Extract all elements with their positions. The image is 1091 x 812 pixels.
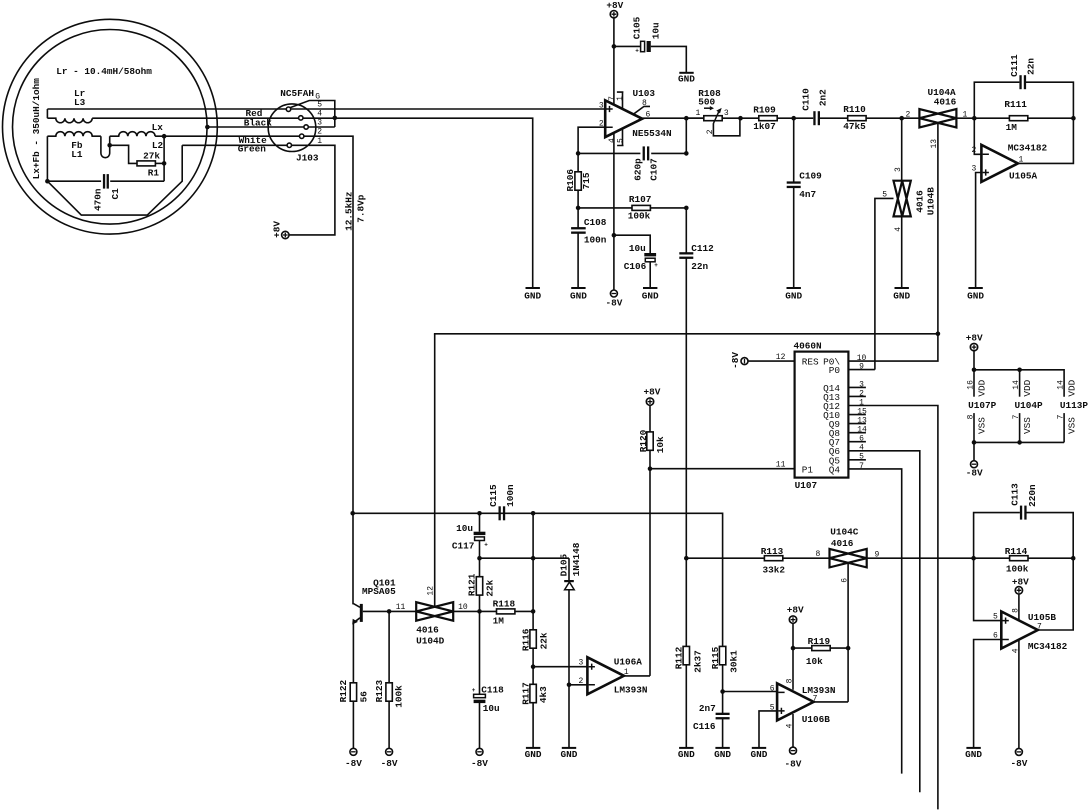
wire U105B pin8 <box>1018 594 1020 620</box>
supply -8V U105B <box>1015 748 1022 755</box>
op-amp U105B MC34182 <box>1001 612 1038 649</box>
inductor L2 Lx <box>110 132 155 137</box>
junction R111 right <box>1071 116 1076 121</box>
wire U106B plus from GND <box>759 711 777 748</box>
wire Green row pin1 to +8V drop <box>289 145 335 235</box>
svg-text:R107: R107 <box>629 194 652 205</box>
svg-text:R121: R121 <box>467 573 478 596</box>
wire U104C pin6 control <box>847 564 849 702</box>
svg-text:GND: GND <box>785 290 802 301</box>
wire C110 right to R110 <box>820 117 848 119</box>
svg-text:C1: C1 <box>110 188 121 200</box>
capacitor C107 620p <box>643 146 645 160</box>
capacitor C116 2n7 <box>722 692 724 748</box>
junction U104A out <box>972 116 977 121</box>
svg-text:4016: 4016 <box>934 97 957 108</box>
svg-text:2: 2 <box>906 110 911 119</box>
connector pin 4 <box>299 116 303 120</box>
svg-text:U103: U103 <box>633 88 656 99</box>
svg-text:4016: 4016 <box>831 538 854 549</box>
wire White row L2 to pin2 <box>155 135 300 137</box>
svg-text:3: 3 <box>724 109 729 118</box>
junction U103 output <box>684 116 689 121</box>
svg-text:4060N: 4060N <box>794 340 823 351</box>
svg-text:C112: C112 <box>691 243 714 254</box>
svg-text:D105: D105 <box>559 554 570 577</box>
svg-text:7: 7 <box>1012 414 1021 419</box>
svg-text:R110: R110 <box>843 104 866 115</box>
junction R121 bottom <box>477 609 482 614</box>
wire C112 drop <box>685 208 687 558</box>
junction VDD rail <box>972 368 977 373</box>
svg-text:C111: C111 <box>1009 54 1020 77</box>
wire pin5 bus top <box>47 108 605 110</box>
svg-text:VSS: VSS <box>1067 417 1078 434</box>
wire VDD rail <box>974 370 1064 397</box>
resistor R120 10k <box>649 405 651 432</box>
supply -8V at RES <box>741 358 748 365</box>
ground GND U106B plus <box>752 747 766 749</box>
svg-text:3: 3 <box>599 102 604 111</box>
wire C106 tap <box>614 235 650 253</box>
svg-text:13: 13 <box>857 417 867 426</box>
svg-text:+8V: +8V <box>272 221 283 238</box>
wire U105B plus <box>974 558 1002 620</box>
wire U104D pin12 control <box>434 334 436 607</box>
wire C109 drop <box>793 118 795 288</box>
wire tap to R1 left <box>110 145 137 163</box>
junction C115 right <box>531 511 536 516</box>
svg-text:R119: R119 <box>808 636 831 647</box>
junction C105 tap <box>612 44 617 49</box>
svg-text:VSS: VSS <box>1022 417 1033 434</box>
wire Q101 base row <box>363 610 416 612</box>
svg-text:LM393N: LM393N <box>614 685 648 696</box>
coil shield inner circle <box>13 30 208 225</box>
junction R114 right <box>1071 556 1076 561</box>
svg-text:R109: R109 <box>753 105 776 116</box>
wire U104A pin13 control <box>937 124 939 334</box>
wire output node down <box>685 118 687 153</box>
svg-text:P1: P1 <box>802 464 814 475</box>
svg-text:C105: C105 <box>632 16 643 39</box>
svg-text:C118: C118 <box>481 685 504 696</box>
wire U105A output up to main row <box>1018 118 1074 163</box>
wire P1 pin11 row <box>650 468 795 470</box>
resistor R112 2k37 <box>685 558 687 748</box>
wire to U106A plus <box>533 666 587 668</box>
svg-text:R120: R120 <box>638 429 649 452</box>
wire U104A out to R111 <box>956 117 1009 119</box>
junction C117 top <box>477 511 482 516</box>
svg-text:P0: P0 <box>829 365 841 376</box>
wire R118 right <box>515 610 533 612</box>
svg-text:6: 6 <box>859 435 864 444</box>
svg-text:100n: 100n <box>584 235 607 246</box>
svg-text:U107P: U107P <box>968 400 997 411</box>
wire Black row pin3 to bracket <box>308 126 335 128</box>
svg-text:2: 2 <box>859 389 864 398</box>
analog switch U104B 4016 <box>894 181 911 217</box>
wire to U106B minus <box>723 691 778 693</box>
svg-text:RES: RES <box>802 357 819 368</box>
svg-text:6: 6 <box>841 578 850 583</box>
junction Black on inner circle <box>205 125 210 130</box>
svg-text:R115: R115 <box>710 646 721 669</box>
svg-text:8: 8 <box>966 414 975 419</box>
svg-text:13: 13 <box>930 139 939 149</box>
wire Red row pin4 to GND drop <box>303 118 533 288</box>
svg-text:+8V: +8V <box>1012 577 1029 588</box>
wire C111 loop left <box>974 82 1019 118</box>
svg-text:GND: GND <box>965 749 982 760</box>
wire U105B minus <box>974 640 1002 748</box>
junction R119 right <box>846 646 851 651</box>
svg-text:1: 1 <box>317 137 322 146</box>
wire L1 left leg down <box>46 136 48 181</box>
svg-text:Green: Green <box>238 144 267 155</box>
wire U106A output <box>624 675 650 677</box>
junction row 558 mid <box>531 556 536 561</box>
svg-text:C109: C109 <box>799 171 822 182</box>
svg-text:2: 2 <box>579 677 584 686</box>
svg-text:220n: 220n <box>1027 484 1038 507</box>
svg-text:30k1: 30k1 <box>729 650 740 673</box>
svg-text:GND: GND <box>967 290 984 301</box>
svg-text:3: 3 <box>894 167 903 172</box>
svg-text:LM393N: LM393N <box>802 685 836 696</box>
svg-text:9: 9 <box>859 363 864 372</box>
svg-text:8: 8 <box>1011 608 1020 613</box>
svg-text:12: 12 <box>776 353 786 362</box>
ground GND C109 <box>787 287 801 289</box>
svg-text:-8V: -8V <box>966 467 983 478</box>
svg-text:7.8Vp: 7.8Vp <box>355 194 366 223</box>
ground GND C105 <box>679 72 693 74</box>
svg-text:27k: 27k <box>143 151 160 162</box>
svg-text:GND: GND <box>751 749 768 760</box>
svg-text:+8V: +8V <box>606 0 623 11</box>
svg-text:12: 12 <box>427 586 436 596</box>
svg-text:+: + <box>472 687 476 694</box>
svg-text:10u: 10u <box>651 22 662 39</box>
junction U106A plus node <box>531 664 536 669</box>
svg-text:+: + <box>635 48 639 55</box>
wire L1-L2 center tap U dip <box>101 136 110 157</box>
junction feedback left <box>576 151 581 156</box>
wire C113 loop left <box>974 513 1020 559</box>
potentiometer R108 500 <box>704 116 722 121</box>
ground GND U105A <box>968 287 982 289</box>
svg-text:7: 7 <box>608 96 617 101</box>
resistor R110 47k5 <box>848 116 866 121</box>
svg-text:VSS: VSS <box>977 417 988 434</box>
resistor R114 100k <box>1010 556 1028 561</box>
svg-text:GND: GND <box>714 749 731 760</box>
svg-text:10u: 10u <box>629 243 646 254</box>
svg-text:100k: 100k <box>628 211 651 222</box>
svg-text:-8V: -8V <box>471 758 488 769</box>
junction R107 right <box>684 206 689 211</box>
svg-text:-8V: -8V <box>345 758 362 769</box>
svg-text:715: 715 <box>581 172 592 189</box>
wire Green row shield to pin1 <box>182 144 287 146</box>
capacitor C106 10u polarized <box>644 253 656 256</box>
svg-text:-8V: -8V <box>605 298 622 309</box>
svg-text:56: 56 <box>358 691 369 703</box>
wire row 558 to D105 <box>480 557 570 559</box>
svg-text:11: 11 <box>776 461 786 470</box>
supply -8V C118 <box>476 748 483 755</box>
resistor R121 22k <box>479 558 481 611</box>
resistor R107 100k <box>632 205 650 210</box>
coil shield outer circle <box>3 19 218 234</box>
svg-text:4n7: 4n7 <box>799 189 816 200</box>
svg-text:GND: GND <box>642 290 659 301</box>
wire R108 right to R109 <box>722 117 759 119</box>
wire Q12 pin1 long <box>848 406 938 810</box>
svg-text:4k3: 4k3 <box>538 686 549 703</box>
svg-text:C116: C116 <box>693 721 716 732</box>
wire main row U103 out to R108 <box>686 117 704 119</box>
svg-text:U107: U107 <box>795 480 818 491</box>
capacitor C105 10u <box>641 41 645 51</box>
wire R108 wiper loop <box>713 118 740 136</box>
svg-text:R113: R113 <box>761 546 784 557</box>
svg-text:4: 4 <box>1011 648 1020 653</box>
junction R119 left <box>791 646 796 651</box>
svg-text:16: 16 <box>966 380 975 390</box>
svg-text:C107: C107 <box>648 158 659 181</box>
junction C106 tap <box>612 233 617 238</box>
wire U104B pin5 control <box>875 198 894 369</box>
svg-text:U104D: U104D <box>416 635 445 646</box>
wire U104B pin3 up <box>901 118 903 181</box>
svg-text:VDD: VDD <box>1067 379 1078 396</box>
svg-text:8: 8 <box>642 99 647 108</box>
svg-text:C106: C106 <box>624 261 647 272</box>
wire C113 loop right <box>1026 513 1073 559</box>
resistor R118 1M <box>497 609 515 614</box>
svg-text:15: 15 <box>857 408 867 417</box>
resistor R123 100k <box>388 611 390 682</box>
capacitor C113 220n <box>1020 506 1022 520</box>
transistor Q101 MPSA05 <box>353 604 360 608</box>
svg-text:2n7: 2n7 <box>699 703 716 714</box>
ground GND C106 <box>643 287 657 289</box>
wire U105B pin4 to -8V <box>1018 641 1020 749</box>
svg-text:U104P: U104P <box>1015 400 1044 411</box>
svg-text:R106: R106 <box>565 169 576 192</box>
connector pin 5 <box>286 107 290 111</box>
connector pin 1 <box>287 143 291 147</box>
svg-text:470n: 470n <box>92 188 103 211</box>
svg-text:-8V: -8V <box>381 758 398 769</box>
svg-text:Lr - 10.4mH/58ohm: Lr - 10.4mH/58ohm <box>56 66 152 77</box>
svg-text:R111: R111 <box>1004 99 1027 110</box>
svg-text:2n2: 2n2 <box>817 89 828 106</box>
ground GND Red wire <box>526 287 540 289</box>
analog switch U104A 4016 <box>919 109 956 128</box>
resistor R116 22k <box>530 630 536 648</box>
wire L2 right down through R1 node to C1 rail <box>163 136 165 181</box>
connector pin 3 <box>304 125 308 129</box>
capacitor C111 22n <box>1019 75 1021 89</box>
ground GND D105 <box>562 747 576 749</box>
svg-text:MC34182: MC34182 <box>1008 143 1048 154</box>
svg-text:2: 2 <box>317 128 322 137</box>
ground GND C108 <box>571 287 585 289</box>
svg-text:100n: 100n <box>505 484 516 507</box>
svg-text:+: + <box>654 262 658 269</box>
svg-text:4: 4 <box>859 444 864 453</box>
svg-text:1: 1 <box>859 398 864 407</box>
svg-text:R122: R122 <box>338 680 349 703</box>
svg-text:3: 3 <box>579 659 584 668</box>
svg-text:6: 6 <box>770 685 775 694</box>
svg-text:R123: R123 <box>374 680 385 703</box>
wire C108 drop <box>577 208 579 288</box>
svg-text:12.5kHz: 12.5kHz <box>344 192 355 231</box>
svg-text:L3: L3 <box>74 97 86 108</box>
svg-text:C113: C113 <box>1010 483 1021 506</box>
svg-text:3: 3 <box>972 164 977 173</box>
analog switch U104D 4016 <box>416 602 453 621</box>
svg-text:7: 7 <box>859 462 864 471</box>
inductor L3 Lr <box>47 118 92 123</box>
svg-text:100k: 100k <box>1006 564 1029 575</box>
wire Red row from Lr to pin4 <box>92 117 298 119</box>
resistor R1 27k <box>137 161 155 166</box>
connector pin 2 <box>300 134 304 138</box>
supply -8V R122 <box>350 748 357 755</box>
wire U103 output row <box>642 117 704 119</box>
wire R114 row <box>974 557 1074 559</box>
svg-text:5: 5 <box>317 100 322 109</box>
svg-text:GND: GND <box>561 749 578 760</box>
supply -8V power block <box>973 442 975 460</box>
wire signal row 513 <box>353 513 723 646</box>
wire U107 pin10 riser <box>848 334 938 361</box>
svg-text:620p: 620p <box>633 158 644 181</box>
wire C106 to GND <box>649 262 651 288</box>
junction bracket Red row <box>333 116 338 121</box>
power pin U107P VDD16 <box>973 370 975 397</box>
svg-text:GND: GND <box>678 74 695 85</box>
svg-text:VDD: VDD <box>1022 379 1033 396</box>
wire C117 bottom <box>479 541 481 559</box>
svg-text:L2: L2 <box>152 140 164 151</box>
svg-text:4016: 4016 <box>914 190 925 213</box>
svg-text:5: 5 <box>770 704 775 713</box>
wire VSS rail <box>974 441 1064 443</box>
resistor R122 56 <box>350 683 356 701</box>
svg-text:22n: 22n <box>1026 58 1037 75</box>
svg-text:3: 3 <box>317 119 322 128</box>
svg-text:Lx+Fb - 350uH/1ohm: Lx+Fb - 350uH/1ohm <box>31 78 42 180</box>
ground GND R117 <box>526 747 540 749</box>
svg-text:U113P: U113P <box>1060 400 1089 411</box>
svg-text:+8V: +8V <box>966 333 983 344</box>
U107 output stubs <box>848 386 866 388</box>
capacitor C110 2n2 <box>813 111 815 125</box>
wire x533 vertical <box>532 513 534 630</box>
wire R115 bottom <box>722 665 724 692</box>
svg-text:NE5534N: NE5534N <box>632 128 672 139</box>
diode D105 1N4148 <box>568 558 570 581</box>
svg-text:C110: C110 <box>801 88 812 111</box>
svg-text:MPSA05: MPSA05 <box>362 586 396 597</box>
svg-text:5: 5 <box>859 453 864 462</box>
supply -8V U106B <box>790 747 797 754</box>
wire Q6 pin4 long <box>848 451 919 793</box>
power pin U104P VSS7 <box>1019 413 1021 442</box>
svg-text:GND: GND <box>893 290 910 301</box>
capacitor C109 4n7 <box>787 181 801 183</box>
junction L1-L2 tap <box>107 143 112 148</box>
svg-text:R116: R116 <box>520 628 531 651</box>
wire U105A inverting <box>974 118 981 154</box>
junction C1 rail left <box>45 179 50 184</box>
svg-text:C115: C115 <box>488 484 499 507</box>
power pin U107P VSS8 <box>973 413 975 442</box>
svg-text:47k5: 47k5 <box>843 121 866 132</box>
svg-text:R112: R112 <box>674 646 685 669</box>
svg-text:+8V: +8V <box>644 387 661 398</box>
wire U106B pin8 supply <box>792 623 794 690</box>
svg-text:R114: R114 <box>1005 546 1028 557</box>
junction R107 left <box>576 206 581 211</box>
svg-text:22k: 22k <box>484 579 495 596</box>
svg-text:4: 4 <box>785 723 794 728</box>
svg-text:8: 8 <box>785 678 794 683</box>
svg-text:2: 2 <box>972 146 977 155</box>
capacitor C115 100n <box>499 506 501 520</box>
svg-text:10: 10 <box>857 354 867 363</box>
wire U104C out right <box>867 557 974 559</box>
svg-text:R1: R1 <box>148 168 160 179</box>
svg-text:U106B: U106B <box>802 714 831 725</box>
svg-text:1N4148: 1N4148 <box>571 542 582 576</box>
junction C117 bottom <box>477 556 482 561</box>
wire R120 bottom to U106A out <box>649 450 651 676</box>
wire R107 row <box>578 207 686 209</box>
svg-text:4016: 4016 <box>416 624 439 635</box>
capacitor C118 10u polarized <box>479 611 481 694</box>
svg-text:14: 14 <box>857 426 867 435</box>
svg-text:2k37: 2k37 <box>692 650 703 673</box>
junction L2 right <box>162 134 167 139</box>
junction R1 right <box>162 161 167 166</box>
capacitor C117 10u polarized <box>479 513 481 531</box>
junction signal row left <box>350 511 355 516</box>
svg-text:5: 5 <box>882 191 887 200</box>
svg-text:U105A: U105A <box>1009 170 1038 181</box>
svg-text:Lx: Lx <box>152 122 164 133</box>
wire Q4 pin7 long <box>848 469 901 774</box>
svg-text:8: 8 <box>816 550 821 559</box>
power pin U104P VDD14 <box>1019 370 1021 397</box>
ground GND R112 <box>679 747 693 749</box>
svg-text:J103: J103 <box>296 153 319 164</box>
svg-text:L1: L1 <box>71 149 83 160</box>
svg-text:R117: R117 <box>520 682 531 705</box>
wire U107 pin9 stub <box>848 369 875 371</box>
svg-text:5: 5 <box>993 613 998 622</box>
resistor R106 715 <box>577 153 579 208</box>
svg-text:-8V: -8V <box>730 352 741 369</box>
svg-text:Q4: Q4 <box>829 464 841 475</box>
